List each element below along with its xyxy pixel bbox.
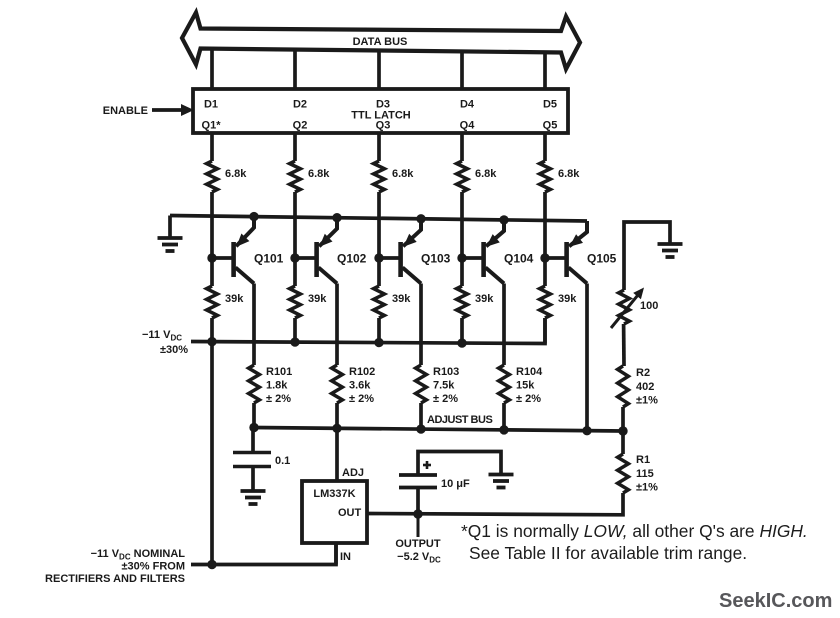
resistor R104 [499,365,544,405]
wire pot to R2 [622,324,626,366]
svg-text:D5: D5 [543,99,557,111]
svg-text:Q5: Q5 [543,120,558,132]
svg-text:± 2%: ± 2% [433,393,458,405]
wire 6.8k to base node ch1 [210,192,214,258]
resistor 6.8k ch4 [457,161,498,192]
wire 6.8k to base node ch5 [543,192,547,258]
wire R2 to adjust bus [621,407,625,431]
node adjust bus junction R2/R1 [618,426,627,435]
svg-text:6.8k: 6.8k [225,168,247,180]
resistor 39k ch5 [540,286,578,318]
svg-text:± 2%: ± 2% [349,393,374,405]
svg-text:0.1: 0.1 [275,455,290,467]
svg-text:Q103: Q103 [421,252,451,266]
svg-text:39k: 39k [392,293,411,305]
wire base Q102 [295,256,317,260]
wire latch Q4 to 6.8k [460,133,464,161]
wire data bus tap D1 [210,47,214,90]
svg-text:7.5k: 7.5k [433,380,455,392]
node emitter bus junction ch4 [499,215,508,224]
svg-text:*Q1 is normally LOW, all other: *Q1 is normally LOW, all other Q's are H… [461,521,808,541]
note See Table II [469,543,747,563]
label ADJUST BUS [427,414,492,426]
svg-text:100: 100 [640,300,658,312]
label -11 VDC NOMINAL / RECTIFIERS AND FILTERS [45,548,185,585]
resistor R101 [249,365,293,405]
transistor Q104 (PNP) [481,220,533,284]
wire ADJUST BUS [254,428,623,432]
transistor Q103 (PNP) [398,219,450,284]
wire latch Q3 to 6.8k [377,133,381,161]
wire latch Q5 to 6.8k [543,133,547,161]
wire R104 to adjust bus [502,403,506,430]
svg-text:ENABLE: ENABLE [103,105,148,117]
transistor Q101 (PNP) [231,217,283,284]
latch U1 TTL LATCH [193,89,568,133]
resistor 39k ch1 [207,286,245,318]
watermark SeekIC.com [719,590,832,612]
wire adjust bus to ADJ pin [335,429,339,481]
node emitter bus junction ch3 [416,214,425,223]
svg-text:D1: D1 [204,99,218,111]
node adjust bus junction R102/ADJ [332,424,341,433]
svg-text:R104: R104 [516,366,543,378]
svg-text:LM337K: LM337K [313,488,355,500]
label IN pin [340,551,351,563]
wire collector Q105 to adjust bus [585,284,589,431]
svg-text:±1%: ±1% [636,482,658,494]
resistor R103 [416,365,460,405]
svg-text:3.6k: 3.6k [349,380,371,392]
wire data bus tap D2 [293,48,297,90]
svg-text:R101: R101 [266,366,292,378]
node base junction Q105 [540,253,549,262]
wire R103 to adjust bus [419,403,423,429]
svg-text:6.8k: 6.8k [308,168,330,180]
node emitter bus junction ch2 [332,213,341,222]
ground right of C2 [489,475,514,488]
wire 39k to -11V rail ch2 [293,318,297,342]
ground left (emitter bus) [158,216,183,252]
wire pot top to ground [624,222,670,290]
ground below C1 [241,491,266,504]
svg-text:±30% FROM: ±30% FROM [122,561,186,573]
wire adjust bus to R1 [621,431,625,454]
wire base Q104 [462,256,484,260]
wire 6.8k to base node ch2 [293,192,297,258]
svg-text:115: 115 [636,468,654,480]
node adjust bus junction R101/C1 [249,423,258,432]
svg-text:39k: 39k [308,293,327,305]
svg-text:D4: D4 [460,99,475,111]
wire collector Q103 to R103 [419,284,423,366]
wire base to 39k ch5 [543,258,547,286]
wire collector Q104 to R104 [502,284,506,366]
wire R101 to adjust bus [252,403,256,428]
svg-text:6.8k: 6.8k [475,168,497,180]
svg-text:Q102: Q102 [337,252,367,266]
svg-text:SeekIC.com: SeekIC.com [719,590,832,612]
svg-text:−11 VDC NOMINAL: −11 VDC NOMINAL [91,548,186,562]
wire 6.8k to base node ch4 [460,192,464,258]
svg-text:ADJUST BUS: ADJUST BUS [427,414,492,426]
svg-text:TTL LATCH: TTL LATCH [351,110,411,122]
bus DATA BUS double arrow [182,13,580,70]
resistor R1 115 [618,454,659,494]
svg-text:OUT: OUT [338,507,362,519]
node emitter bus junction ch1 [249,212,258,221]
svg-text:1.8k: 1.8k [266,380,288,392]
svg-text:±1%: ±1% [636,395,658,407]
wire base Q101 [212,256,234,260]
svg-text:ADJ: ADJ [342,467,364,479]
resistor 6.8k ch1 [207,161,248,192]
svg-text:39k: 39k [558,293,577,305]
wire 39k to -11V rail ch4 [460,318,464,343]
wire data bus tap D3 [377,49,381,90]
svg-text:RECTIFIERS AND FILTERS: RECTIFIERS AND FILTERS [45,573,185,585]
svg-text:R1: R1 [636,454,650,466]
wire base to 39k ch4 [460,258,464,286]
svg-text:± 2%: ± 2% [516,393,541,405]
transistor Q102 (PNP) [314,218,366,284]
regulator U2 LM337K [302,481,367,543]
svg-text:39k: 39k [225,293,244,305]
wire data bus tap D5 [543,51,547,90]
svg-text:39k: 39k [475,293,494,305]
node -11V input junction [207,560,216,569]
resistor 6.8k ch5 [540,161,581,192]
node output junction (C2) [413,509,422,518]
wire 6.8k to base node ch3 [377,192,381,258]
resistor 39k ch2 [290,286,328,318]
wire 39k to -11V rail ch5 [543,318,547,344]
svg-text:R102: R102 [349,366,375,378]
resistor 6.8k ch3 [374,161,415,192]
svg-text:See Table II for available tri: See Table II for available trim range. [469,543,747,563]
svg-text:Q4: Q4 [460,120,476,132]
svg-text:Q101: Q101 [254,252,284,266]
node adjust bus junction R103 [416,424,425,433]
resistor 39k ch4 [457,286,495,318]
wire latch Q1 to 6.8k [210,133,214,161]
svg-text:Q104: Q104 [504,252,534,266]
wire base to 39k ch3 [377,258,381,286]
wire data bus tap D4 [460,50,464,90]
svg-text:−11 VDC: −11 VDC [142,329,182,343]
svg-text:10 μF: 10 μF [441,478,470,490]
potentiometer R3 100 [611,288,658,329]
label -11 VDC +/-30% [142,329,188,356]
resistor 6.8k ch2 [290,161,331,192]
wire collector Q101 to R101 [252,284,256,366]
svg-text:R2: R2 [636,367,650,379]
svg-text:D2: D2 [293,99,307,111]
node base junction Q101 [207,253,216,262]
svg-text:DATA BUS: DATA BUS [353,36,408,48]
svg-text:6.8k: 6.8k [558,168,580,180]
svg-text:OUTPUT: OUTPUT [395,538,441,550]
svg-text:15k: 15k [516,380,535,392]
wire latch Q2 to 6.8k [293,133,297,161]
label ADJ pin [342,467,364,479]
note *Q1 normally LOW [461,521,808,541]
wire base Q103 [379,256,401,260]
svg-text:Q2: Q2 [293,120,308,132]
svg-text:402: 402 [636,381,654,393]
node base junction Q104 [457,253,466,262]
wire -11 VDC rail [191,318,545,344]
wire 39k to -11V rail ch3 [377,318,381,343]
svg-text:6.8k: 6.8k [392,168,414,180]
capacitor C2 10uF [399,452,501,515]
wire -11V nominal input rail [191,543,336,565]
svg-text:R103: R103 [433,366,459,378]
resistor R102 [332,365,376,405]
wire base Q105 [545,256,567,260]
svg-text:± 2%: ± 2% [266,393,291,405]
wire base to 39k ch2 [293,258,297,286]
wire 39k to -11V rail ch1 [210,318,214,342]
svg-text:IN: IN [340,551,351,563]
resistor 39k ch3 [374,286,412,318]
wire OUT output rail [367,493,623,515]
transistor Q105 (PNP) [564,221,616,284]
label OUTPUT -5.2 VDC [395,514,441,565]
wire IN pin [334,543,338,565]
node adjust bus junction Q105 collector [582,426,591,435]
wire emitter bus (ground bus) [170,216,587,222]
wire R102 to adjust bus [335,403,339,428]
node adjust bus junction R104 [499,425,508,434]
node base junction Q103 [374,253,383,262]
wire collector Q102 to R102 [335,284,339,366]
resistor R2 402 [618,366,659,407]
svg-text:−5.2 VDC: −5.2 VDC [397,551,441,565]
svg-text:Q1*: Q1* [202,120,222,132]
wire base to 39k ch1 [210,258,214,286]
wire col1 -11V feed [210,342,214,565]
node -11V rail junctions [207,337,466,348]
ground right (pot) [658,244,683,257]
svg-text:±30%: ±30% [160,344,188,356]
capacitor C1 0.1 [233,430,290,491]
node base junction Q102 [290,253,299,262]
svg-text:Q105: Q105 [587,252,617,266]
ENABLE input [103,104,194,117]
